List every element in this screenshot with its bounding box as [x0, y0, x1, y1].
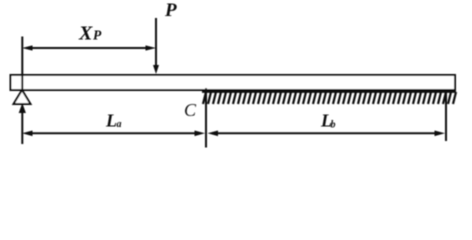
svg-text:X: X: [78, 23, 93, 45]
svg-text:P: P: [164, 0, 177, 21]
svg-text:a: a: [117, 119, 122, 130]
svg-text:C: C: [184, 100, 197, 120]
svg-text:L: L: [105, 111, 117, 131]
svg-text:b: b: [331, 120, 336, 131]
svg-text:P: P: [93, 27, 102, 42]
